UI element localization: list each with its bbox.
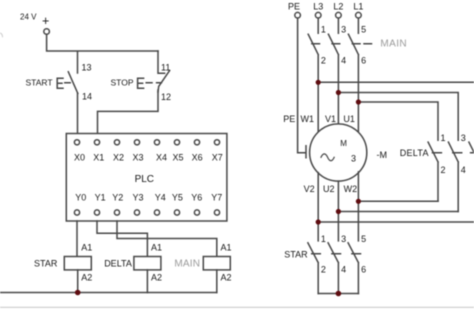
svg-text:DELTA: DELTA [104, 258, 132, 268]
svg-text:6: 6 [361, 265, 366, 275]
svg-text:PLC: PLC [135, 174, 154, 185]
svg-text:2: 2 [321, 265, 326, 275]
svg-text:PE: PE [288, 1, 300, 11]
svg-text:3: 3 [351, 154, 356, 164]
svg-text:Y1: Y1 [95, 193, 106, 203]
svg-text:A1: A1 [151, 242, 162, 252]
svg-text:L2: L2 [333, 1, 343, 11]
svg-text:A2: A2 [221, 272, 232, 282]
svg-text:Y4: Y4 [155, 193, 166, 203]
svg-text:24 V: 24 V [20, 13, 37, 22]
svg-text:X6: X6 [192, 153, 203, 163]
svg-text:4: 4 [341, 265, 346, 275]
svg-text:PE: PE [283, 114, 295, 124]
svg-text:Y5: Y5 [172, 193, 183, 203]
svg-text:11: 11 [161, 62, 170, 72]
svg-text:X7: X7 [212, 153, 223, 163]
svg-text:2: 2 [441, 165, 446, 175]
svg-text:MAIN: MAIN [380, 39, 407, 50]
svg-text:4: 4 [341, 56, 346, 66]
svg-text:V2: V2 [304, 184, 315, 194]
svg-text:Y7: Y7 [211, 193, 222, 203]
svg-text:5: 5 [361, 234, 366, 244]
svg-text:A1: A1 [81, 242, 92, 252]
svg-text:13: 13 [82, 62, 92, 72]
svg-text:L1: L1 [353, 1, 363, 11]
svg-text:Y0: Y0 [75, 193, 86, 203]
svg-text:X3: X3 [132, 153, 143, 163]
svg-text:1: 1 [321, 24, 326, 34]
svg-text:3: 3 [341, 234, 346, 244]
svg-text:W2: W2 [344, 184, 358, 194]
svg-text:12: 12 [161, 92, 171, 102]
svg-text:14: 14 [82, 92, 92, 102]
svg-text:STAR: STAR [34, 258, 58, 268]
svg-text:X4: X4 [156, 153, 167, 163]
svg-text:A2: A2 [151, 272, 162, 282]
svg-text:MAIN: MAIN [174, 259, 200, 270]
svg-text:V1: V1 [325, 114, 336, 124]
svg-text:X0: X0 [74, 153, 85, 163]
svg-text:Y6: Y6 [191, 193, 202, 203]
svg-text:X2: X2 [113, 153, 124, 163]
svg-text:5: 5 [361, 24, 366, 34]
svg-text:STAR: STAR [284, 250, 308, 260]
svg-text:3: 3 [461, 133, 466, 143]
svg-text:W1: W1 [301, 114, 315, 124]
svg-text:M: M [340, 139, 347, 148]
svg-text:U1: U1 [343, 114, 355, 124]
svg-text:2: 2 [321, 56, 326, 66]
svg-text:Y3: Y3 [132, 193, 143, 203]
svg-text:A1: A1 [221, 242, 232, 252]
svg-text:STOP: STOP [111, 78, 134, 88]
svg-text:6: 6 [361, 56, 366, 66]
svg-text:4: 4 [461, 165, 466, 175]
svg-text:1: 1 [441, 133, 446, 143]
svg-text:X5: X5 [172, 153, 183, 163]
svg-text:DELTA: DELTA [400, 148, 429, 158]
svg-text:-M: -M [377, 150, 388, 160]
svg-text:1: 1 [321, 234, 326, 244]
svg-text:A2: A2 [81, 272, 92, 282]
svg-text:X1: X1 [93, 153, 104, 163]
svg-text:U2: U2 [323, 184, 335, 194]
svg-text:L3: L3 [313, 1, 323, 11]
svg-text:3: 3 [341, 24, 346, 34]
svg-text:START: START [26, 77, 53, 87]
svg-text:Y2: Y2 [112, 193, 123, 203]
svg-text:+: + [42, 14, 49, 28]
